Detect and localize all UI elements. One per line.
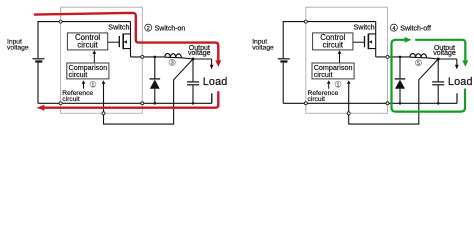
svg-text:3: 3 [171, 61, 174, 67]
wire: switch output rail R [376, 57, 457, 59]
pin node: IC ground-right L [141, 102, 144, 105]
svg-text:Switch: Switch [354, 23, 375, 32]
pin node: feedback pin on IC bottom L [102, 112, 105, 115]
wire: battery - lead down L [37, 63, 39, 104]
diode DL [154, 57, 156, 79]
wire: feedback from output node L [104, 59, 194, 124]
pin node: input pin on IC left edge R [304, 20, 307, 23]
wire: load bottom lead R [456, 93, 458, 103]
battery BL short plate [35, 60, 42, 62]
control circuit box U-ctlR [313, 33, 353, 50]
svg-text:circuit: circuit [314, 70, 333, 79]
svg-text:circuit: circuit [77, 41, 98, 50]
wire: output to load arrow R [456, 59, 458, 65]
red current path: top run [35, 13, 219, 61]
capacitor CR [437, 59, 439, 81]
IC block outline R [306, 7, 388, 113]
arrow: comparison to control L [93, 54, 95, 63]
label circled-1 L [90, 81, 96, 87]
red arrow into load [215, 60, 221, 67]
battery BR long plate [278, 58, 290, 60]
pin node: IC ground-left R [304, 102, 307, 105]
svg-text:circuit: circuit [323, 41, 344, 50]
pin node: IC ground-left L [59, 102, 62, 105]
svg-text:circuit: circuit [62, 96, 80, 103]
inductor LL [165, 54, 182, 58]
svg-text:voltage: voltage [252, 44, 274, 51]
green arrow along top [405, 37, 412, 43]
junction: diode bottom L [154, 102, 157, 105]
comparison circuit box U-cmpL [67, 63, 109, 79]
svg-text:Switch: Switch [108, 23, 129, 32]
svg-text:Load: Load [203, 76, 228, 88]
transistor QR gate bar [364, 36, 366, 47]
svg-text:2: 2 [147, 26, 150, 32]
transistor QR channel bar [367, 34, 369, 50]
red arrow back to battery [37, 105, 45, 111]
control circuit box U-ctlL [67, 33, 107, 50]
arrow: comparison to control R [339, 54, 341, 63]
green arrow into load [462, 60, 468, 67]
svg-text:circuit: circuit [308, 96, 326, 103]
svg-text:voltage: voltage [7, 44, 29, 51]
battery BL long plate [33, 58, 45, 60]
label circled-5 under inductor [415, 60, 421, 66]
IC block outline L [61, 7, 143, 113]
wire: switch output rail L [131, 57, 212, 59]
pin node: switch pin on IC right edge L [141, 55, 144, 58]
arrow: feedback into comparison L [102, 80, 106, 84]
wire: battery - lead down R [282, 63, 284, 104]
svg-text:circuit: circuit [69, 70, 88, 79]
heading circled-2 Switch-on [145, 24, 152, 31]
pin node: switch pin on IC right edge R [386, 55, 389, 58]
transistor QL drain/source leads [123, 22, 130, 57]
arrow: reference into comparison L [83, 84, 85, 89]
pin node: IC ground-right R [386, 102, 389, 105]
junction: diode top R [399, 56, 402, 59]
junction: capacitor bottom L [192, 102, 195, 105]
heading circled-4 Switch-off [390, 24, 397, 31]
junction: capacitor bottom R [437, 102, 440, 105]
capacitor CL [192, 59, 194, 81]
svg-text:1: 1 [91, 82, 94, 88]
green current path: diode-up and top run [392, 40, 405, 108]
svg-text:voltage: voltage [433, 50, 456, 57]
transistor QL gate wire [108, 41, 120, 43]
diode DR [399, 57, 401, 79]
wire: ground rail L [38, 93, 212, 103]
svg-text:4: 4 [392, 26, 395, 32]
svg-text:Switch-off: Switch-off [400, 26, 431, 33]
svg-text:Load: Load [448, 76, 473, 88]
wire: feedback from output node R [349, 59, 439, 124]
junction: output node R [437, 58, 440, 61]
wire: battery + to top rail L [38, 22, 131, 59]
transistor QR drain/source leads [368, 22, 375, 57]
transistor QR gate wire [353, 41, 365, 43]
arrow: reference into comparison R [328, 84, 330, 89]
battery BR short plate [280, 60, 287, 62]
red current path: return run [44, 92, 218, 108]
label circled-3 under inductor [169, 59, 175, 65]
pin node: input pin on IC left edge L [59, 20, 62, 23]
junction: diode top L [154, 56, 157, 59]
green current path: return run [392, 90, 466, 112]
svg-text:1: 1 [337, 82, 340, 88]
transistor QL source arrow [124, 40, 127, 43]
wire: output to load arrow L [211, 59, 213, 65]
inductor LR [410, 54, 427, 58]
transistor QR source arrow [369, 40, 372, 43]
pin node: feedback pin on IC bottom R [347, 112, 350, 115]
wire: ground rail R [283, 93, 457, 103]
comparison circuit box U-cmpR [312, 63, 354, 79]
green current path: top run to load [415, 40, 465, 61]
arrow: feedback into comparison R [347, 80, 351, 84]
wire: battery + to top rail R [283, 22, 376, 59]
junction: output node L [192, 58, 195, 61]
junction: diode bottom R [399, 102, 402, 105]
transistor QL channel bar [122, 34, 124, 50]
label circled-1 R [335, 81, 341, 87]
transistor QL gate bar [118, 36, 120, 47]
svg-text:5: 5 [417, 61, 420, 67]
svg-text:Switch-on: Switch-on [155, 26, 186, 33]
svg-text:voltage: voltage [188, 50, 211, 57]
wire: load bottom lead L [211, 93, 213, 103]
